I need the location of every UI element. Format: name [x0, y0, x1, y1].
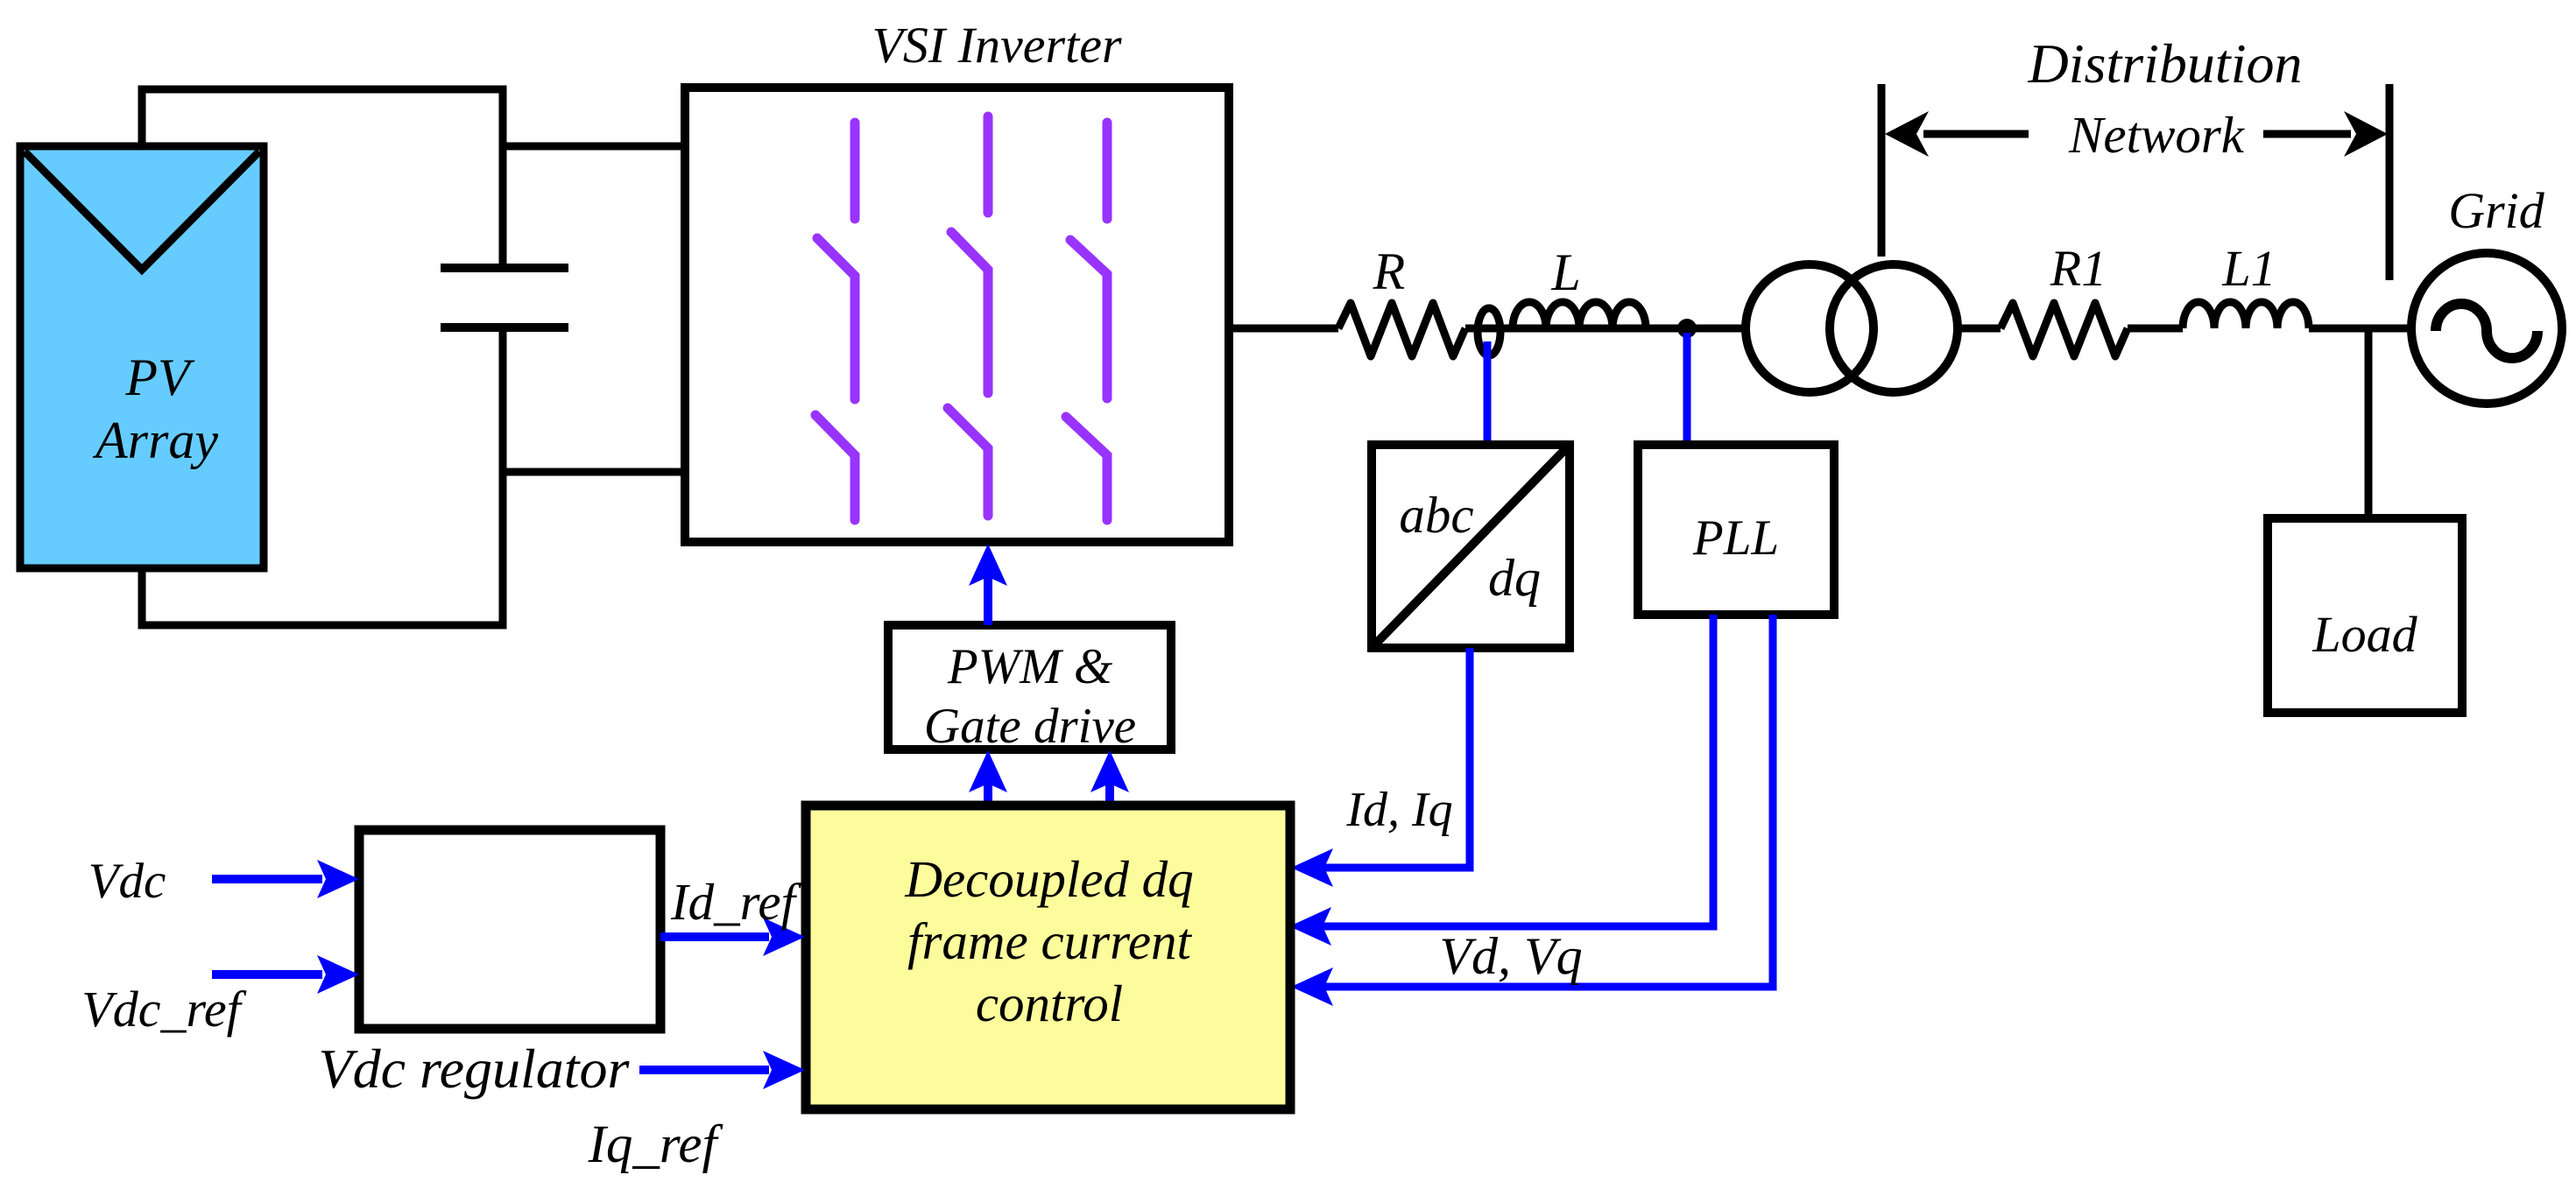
switch S2 (phase A bottom) — [815, 415, 855, 520]
svg-text:PLL: PLL — [1692, 510, 1779, 566]
svg-text:Gate drive: Gate drive — [924, 699, 1136, 754]
arrow Vdc input (blue) — [212, 860, 359, 898]
switch S1 (phase A top) — [817, 123, 855, 399]
block PLL — [1638, 445, 1834, 615]
svg-text:Decoupled dq: Decoupled dq — [904, 850, 1193, 908]
block Vdc regulator — [359, 830, 660, 1029]
svg-text:L: L — [1550, 243, 1580, 301]
VSI inverter box — [685, 88, 1229, 542]
svg-text:Id, Iq: Id, Iq — [1345, 783, 1452, 837]
switch S3 (phase B top) — [951, 116, 988, 393]
wire DC+ stub to inverter — [503, 143, 685, 151]
svg-text:Array: Array — [92, 412, 218, 469]
svg-text:control: control — [976, 974, 1123, 1032]
resistor R1 — [2001, 303, 2128, 356]
arrow control to PWM right (blue) — [1090, 750, 1129, 804]
wire tap L to abc/dq (blue) — [1484, 341, 1492, 445]
svg-text:R: R — [1373, 243, 1406, 300]
wire node to PLL (blue) — [1683, 333, 1691, 445]
node PCC — [1677, 319, 1697, 338]
arrow Id,Iq into control — [1291, 848, 1333, 887]
svg-text:Load: Load — [2311, 606, 2417, 663]
arrow distribution left — [1885, 111, 2029, 157]
svg-text:R1: R1 — [2050, 240, 2107, 297]
svg-text:dq: dq — [1488, 549, 1541, 607]
block PWM & gate drive — [888, 625, 1171, 754]
svg-text:PWM &: PWM & — [947, 639, 1113, 694]
block abc/dq — [1372, 445, 1570, 648]
svg-text:Vdc_ref: Vdc_ref — [81, 981, 246, 1038]
transformer primary circle — [1746, 264, 1874, 392]
arrow PLL out 1 into control — [1289, 907, 1331, 946]
svg-text:Vd, Vq: Vd, Vq — [1439, 927, 1582, 985]
svg-text:Distribution: Distribution — [2028, 32, 2303, 95]
wire PLL to control 1 (blue) — [1323, 615, 1713, 926]
load box — [2268, 518, 2462, 713]
svg-text:Vdc: Vdc — [88, 854, 166, 909]
arrow Vdc_ref input (blue) — [212, 955, 359, 994]
inductor L — [1513, 302, 1646, 328]
arrow Iq_ref (blue) — [639, 1051, 805, 1089]
wire transformer to R1 — [1958, 325, 2001, 333]
transformer secondary circle — [1830, 264, 1958, 392]
wire abc/dq to control Id,Iq (blue) — [1324, 648, 1470, 868]
wire PLL to control 2 (blue) — [1324, 615, 1773, 987]
arrow Id_ref (blue) — [660, 918, 805, 956]
wire DC-link loop — [142, 89, 503, 625]
svg-text:L1: L1 — [2221, 240, 2276, 297]
arrow PWM to inverter (blue) — [969, 544, 1007, 625]
label PV Array — [92, 348, 218, 469]
switch S6 (phase C bottom) — [1066, 417, 1107, 520]
arrow distribution right — [2263, 111, 2388, 157]
svg-text:Grid: Grid — [2448, 182, 2545, 239]
svg-text:Iq_ref: Iq_ref — [588, 1115, 723, 1174]
PV array panel — [20, 146, 264, 568]
svg-text:PV: PV — [124, 348, 195, 406]
wire R1 to L1 — [2128, 325, 2183, 333]
svg-text:VSI Inverter: VSI Inverter — [872, 17, 1121, 74]
distribution network left bar — [1878, 84, 1886, 257]
svg-text:frame current: frame current — [907, 912, 1193, 970]
wire grid junction to load — [2365, 328, 2373, 518]
grid sine wave — [2436, 304, 2537, 358]
svg-text:Vdc regulator: Vdc regulator — [319, 1038, 631, 1100]
wire R to L — [1465, 325, 1746, 333]
distribution network right bar — [2386, 84, 2394, 280]
resistor R — [1338, 303, 1465, 356]
arrow control to PWM left (blue) — [969, 750, 1007, 804]
grid source circle — [2411, 253, 2562, 404]
inductor L1 — [2183, 302, 2309, 328]
switch S4 (phase B bottom) — [948, 408, 988, 516]
capacitor C top plate — [441, 264, 568, 272]
switch S5 (phase C top) — [1070, 123, 1107, 398]
capacitor C bottom plate — [441, 323, 568, 332]
inductor L start loop — [1478, 308, 1500, 355]
svg-text:Network: Network — [2068, 106, 2246, 164]
wire L1 to grid — [2309, 325, 2411, 333]
wire DC- stub to inverter — [503, 468, 685, 476]
svg-text:Id_ref: Id_ref — [670, 873, 802, 931]
svg-text:abc: abc — [1399, 486, 1473, 544]
block decoupled dq frame current control — [806, 806, 1290, 1109]
wire inverter output — [1229, 325, 1338, 333]
arrow PLL out 2 into control — [1291, 967, 1333, 1006]
